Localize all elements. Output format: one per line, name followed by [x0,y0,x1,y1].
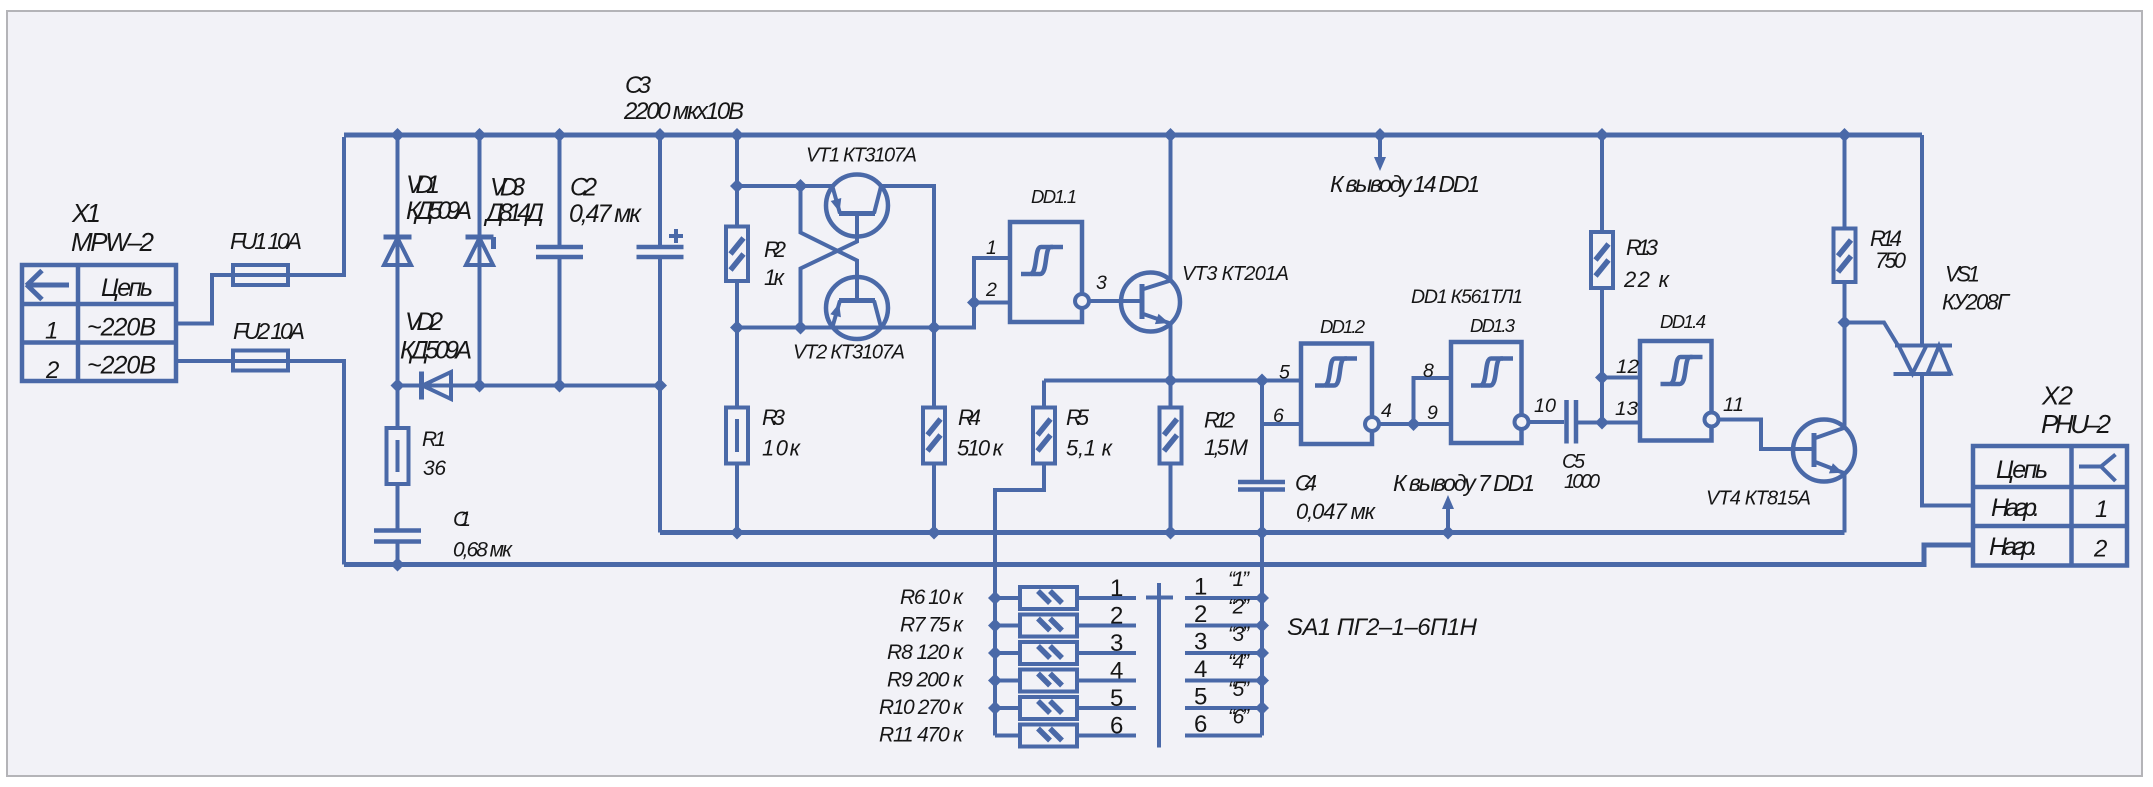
svg-text:0,68 мк: 0,68 мк [453,539,513,562]
svg-text:MPW–2: MPW–2 [71,227,155,257]
svg-text:“5”: “5” [1228,678,1250,701]
svg-text:3: 3 [1110,630,1123,657]
svg-text:5,1 к: 5,1 к [1066,436,1114,461]
svg-text:3: 3 [1194,629,1207,656]
svg-text:2: 2 [985,279,997,301]
svg-text:1: 1 [2095,496,2108,523]
svg-text:VT2 КТ3107А: VT2 КТ3107А [793,342,905,364]
svg-text:VD1: VD1 [406,171,440,199]
svg-text:C5: C5 [1562,451,1586,473]
svg-text:DD1.3: DD1.3 [1470,315,1516,336]
svg-text:“1”: “1” [1228,568,1250,591]
svg-text:R6 10 к: R6 10 к [900,586,964,609]
svg-text:R11 470 к: R11 470 к [879,724,964,747]
svg-text:8: 8 [1423,360,1434,382]
svg-text:VT4 КТ815А: VT4 КТ815А [1706,488,1811,510]
svg-text:36: 36 [423,457,446,480]
svg-text:КД509А: КД509А [406,197,472,225]
svg-text:R3: R3 [762,405,786,430]
svg-text:510 к: 510 к [957,436,1005,461]
svg-text:PHU–2: PHU–2 [2041,409,2112,439]
svg-text:“4”: “4” [1228,651,1250,674]
svg-text:2200 мкх10В: 2200 мкх10В [623,98,744,125]
svg-text:1: 1 [1110,575,1123,602]
svg-text:“2”: “2” [1228,596,1250,619]
svg-text:R13: R13 [1626,235,1659,260]
svg-text:“6”: “6” [1228,706,1250,729]
svg-text:К выводу 14 DD1: К выводу 14 DD1 [1330,171,1480,197]
svg-text:VD2: VD2 [405,308,443,336]
svg-text:R4: R4 [958,405,981,430]
svg-text:2: 2 [45,357,59,384]
svg-text:4: 4 [1381,400,1392,422]
svg-text:C1: C1 [453,508,471,531]
svg-text:C4: C4 [1295,471,1317,496]
svg-text:1 к: 1 к [764,265,786,290]
svg-text:1: 1 [986,237,997,259]
svg-text:1: 1 [45,318,58,345]
svg-text:4: 4 [1110,658,1123,685]
svg-text:13: 13 [1615,398,1638,420]
svg-text:VS1: VS1 [1945,262,1980,287]
svg-text:FU1 10A: FU1 10A [230,228,302,254]
svg-text:1: 1 [1194,574,1207,601]
svg-text:6: 6 [1110,713,1123,740]
svg-text:2: 2 [1194,601,1207,628]
svg-text:SA1 ПГ2–1–6П1Н: SA1 ПГ2–1–6П1Н [1287,614,1478,641]
svg-text:VT1 КТ3107А: VT1 КТ3107А [806,145,917,167]
svg-text:5: 5 [1110,685,1123,712]
svg-text:11: 11 [1723,394,1744,416]
svg-text:DD1.4: DD1.4 [1660,311,1706,332]
svg-text:DD1.2: DD1.2 [1320,316,1366,337]
svg-text:10: 10 [1534,395,1556,417]
svg-text:1,5 М: 1,5 М [1204,435,1249,460]
svg-text:5: 5 [1279,362,1290,384]
svg-text:R2: R2 [764,237,786,262]
svg-text:~220В: ~220В [87,314,156,342]
svg-text:R7 75 к: R7 75 к [900,614,964,637]
svg-text:5: 5 [1194,684,1207,711]
svg-text:Цепь: Цепь [1996,456,2048,484]
svg-text:КД509А: КД509А [400,337,472,365]
svg-text:12: 12 [1616,356,1639,378]
svg-text:R1: R1 [422,428,446,451]
svg-text:“3”: “3” [1228,623,1250,646]
svg-text:R10 270 к: R10 270 к [879,696,964,719]
svg-text:3: 3 [1096,272,1107,294]
svg-text:К выводу 7 DD1: К выводу 7 DD1 [1393,470,1535,496]
svg-text:R9 200 к: R9 200 к [887,669,964,692]
svg-text:DD1.1: DD1.1 [1031,186,1077,207]
svg-text:0,047 мк: 0,047 мк [1296,499,1377,524]
svg-text:0,47 мк: 0,47 мк [569,200,642,228]
svg-text:4: 4 [1194,656,1207,683]
svg-text:R5: R5 [1066,405,1090,430]
svg-text:9: 9 [1427,402,1438,424]
svg-text:Д814Д: Д814Д [483,199,544,227]
svg-text:DD1 К561ТЛ1: DD1 К561ТЛ1 [1411,286,1523,308]
svg-text:750: 750 [1875,248,1907,273]
svg-text:Нагр.: Нагр. [1991,494,2040,522]
svg-text:1000: 1000 [1564,471,1600,493]
svg-text:2: 2 [2093,536,2107,563]
svg-text:FU2 10A: FU2 10A [233,318,305,344]
svg-text:R8 120 к: R8 120 к [887,641,964,664]
svg-text:VD3: VD3 [490,174,525,202]
svg-text:2: 2 [1110,603,1123,630]
svg-text:C3: C3 [625,72,652,99]
svg-text:10к: 10к [762,436,802,461]
svg-text:Нагр.: Нагр. [1989,533,2038,561]
svg-text:~220В: ~220В [87,352,156,380]
svg-text:R12: R12 [1204,408,1235,433]
svg-text:КУ208Г: КУ208Г [1942,290,2011,315]
svg-text:22 к: 22 к [1623,267,1671,292]
svg-text:6: 6 [1273,405,1284,427]
svg-text:Цепь: Цепь [101,274,153,302]
svg-text:C2: C2 [570,174,597,202]
svg-text:VT3 КТ201А: VT3 КТ201А [1182,263,1289,285]
svg-text:X1: X1 [71,198,101,228]
svg-text:X2: X2 [2041,381,2074,411]
svg-text:6: 6 [1194,711,1207,738]
